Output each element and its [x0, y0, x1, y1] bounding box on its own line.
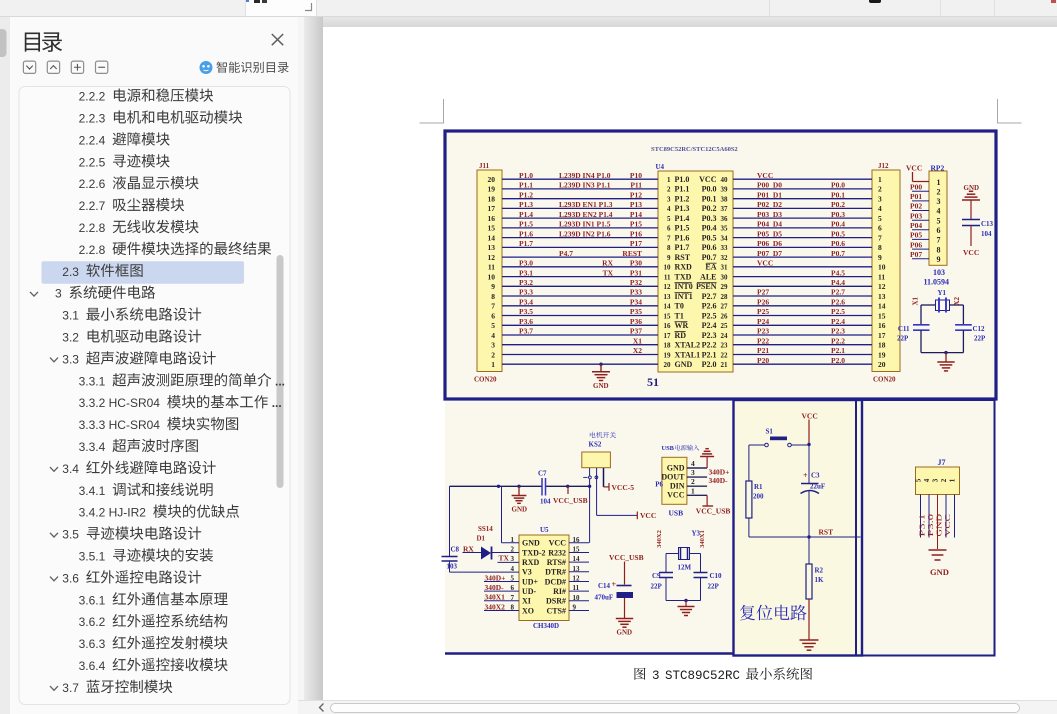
- svg-text:40: 40: [721, 176, 729, 184]
- svg-text:WR: WR: [675, 321, 689, 330]
- svg-text:24: 24: [721, 332, 729, 340]
- svg-text:3: 3: [878, 195, 882, 204]
- svg-text:VCC: VCC: [699, 175, 717, 184]
- svg-text:P20: P20: [757, 356, 769, 365]
- svg-text:3.6.4: 3.6.4: [79, 659, 106, 673]
- svg-text:P06 D6: P06 D6: [757, 239, 782, 248]
- svg-text:29: 29: [721, 283, 729, 291]
- svg-text:DOUT: DOUT: [661, 472, 685, 481]
- svg-text:2: 2: [940, 478, 948, 482]
- svg-text:17: 17: [488, 204, 496, 213]
- svg-text:P07 D7: P07 D7: [757, 249, 782, 258]
- svg-text:10: 10: [488, 272, 496, 281]
- svg-text:28: 28: [721, 293, 729, 301]
- svg-text:P2.4: P2.4: [702, 321, 717, 330]
- svg-text:15: 15: [664, 312, 672, 320]
- svg-text:P2.0: P2.0: [702, 360, 717, 369]
- svg-text:P0.0: P0.0: [702, 185, 717, 194]
- svg-text:P3.5: P3.5: [519, 307, 533, 316]
- svg-text:P01 D1: P01 D1: [757, 190, 782, 199]
- svg-text:REST: REST: [622, 249, 642, 258]
- svg-text:J7: J7: [938, 458, 946, 467]
- svg-text:C8: C8: [451, 545, 460, 553]
- svg-text:3.5.1: 3.5.1: [79, 550, 106, 564]
- svg-text:340D-: 340D-: [709, 476, 729, 485]
- svg-text:22P: 22P: [651, 583, 663, 591]
- svg-text:RD: RD: [675, 331, 687, 340]
- svg-text:P23: P23: [757, 327, 769, 336]
- svg-text:P1.0: P1.0: [519, 171, 533, 180]
- svg-text:5: 5: [915, 478, 923, 482]
- svg-text:RXD: RXD: [675, 263, 693, 272]
- svg-text:INT0: INT0: [675, 282, 693, 291]
- svg-text:P2.1: P2.1: [702, 350, 717, 359]
- svg-text:P15: P15: [630, 220, 642, 229]
- svg-text:10: 10: [664, 264, 672, 272]
- svg-text:340X1: 340X1: [699, 530, 706, 548]
- svg-text:P0.1: P0.1: [702, 195, 717, 204]
- svg-text:3.6.1: 3.6.1: [79, 593, 106, 607]
- svg-text:P02: P02: [910, 202, 922, 211]
- svg-text:C9: C9: [652, 572, 661, 580]
- svg-text:X1: X1: [633, 336, 642, 345]
- svg-text:X1: X1: [912, 296, 920, 305]
- svg-text:14: 14: [664, 303, 672, 311]
- svg-text:P1.2: P1.2: [675, 195, 690, 204]
- svg-text:3: 3: [667, 196, 671, 204]
- svg-text:L293D EN2 P1.4: L293D EN2 P1.4: [559, 210, 613, 219]
- svg-text:+: +: [803, 471, 808, 480]
- svg-text:V3: V3: [522, 568, 532, 577]
- svg-text:P3.3: P3.3: [519, 288, 533, 297]
- svg-text:26: 26: [721, 312, 729, 320]
- svg-text:14: 14: [488, 233, 496, 242]
- svg-text:P13: P13: [630, 200, 642, 209]
- svg-text:P0.6: P0.6: [831, 239, 845, 248]
- svg-text:P30: P30: [630, 259, 642, 268]
- svg-text:3.4.2 HJ-IR2: 3.4.2 HJ-IR2: [79, 506, 147, 520]
- svg-text:P3.7: P3.7: [519, 327, 533, 336]
- svg-text:2.2.7: 2.2.7: [79, 199, 106, 213]
- svg-text:3.3.2 HC-SR04: 3.3.2 HC-SR04: [79, 396, 161, 410]
- svg-text:VCC: VCC: [667, 491, 685, 500]
- svg-text:RTS#: RTS#: [547, 558, 566, 567]
- svg-text:P1.1: P1.1: [519, 181, 533, 190]
- svg-text:6: 6: [878, 224, 882, 233]
- svg-text:5: 5: [878, 214, 882, 223]
- svg-text:104: 104: [981, 230, 992, 238]
- svg-text:S1: S1: [766, 428, 774, 436]
- svg-text:STC89C52RC: STC89C52RC: [665, 669, 740, 683]
- svg-text:KS2: KS2: [589, 441, 602, 449]
- svg-text:RX: RX: [602, 259, 613, 268]
- svg-text:C3: C3: [811, 472, 820, 480]
- svg-text:13: 13: [878, 292, 886, 301]
- svg-text:L293D EN1 P1.3: L293D EN1 P1.3: [559, 200, 613, 209]
- svg-text:P07: P07: [910, 250, 922, 259]
- svg-text:VCC: VCC: [943, 514, 952, 537]
- svg-text:22P: 22P: [708, 583, 720, 591]
- svg-text:CON20: CON20: [873, 376, 896, 384]
- svg-text:19: 19: [878, 350, 886, 359]
- svg-text:P2.5: P2.5: [702, 311, 717, 320]
- svg-text:36: 36: [721, 215, 729, 223]
- svg-text:GND: GND: [675, 360, 693, 369]
- svg-text:X2: X2: [633, 346, 642, 355]
- svg-text:P2.1: P2.1: [831, 346, 845, 355]
- svg-text:340X2: 340X2: [656, 530, 663, 548]
- svg-text:P1.5: P1.5: [675, 224, 690, 233]
- svg-text:3: 3: [491, 341, 495, 350]
- svg-text:8: 8: [937, 245, 941, 254]
- svg-text:VCC: VCC: [757, 171, 773, 180]
- svg-text:51: 51: [647, 375, 659, 389]
- svg-text:CH340D: CH340D: [533, 622, 559, 630]
- svg-text:3.3.3 HC-SR04: 3.3.3 HC-SR04: [79, 418, 161, 432]
- svg-text:8: 8: [491, 292, 495, 301]
- svg-text:R2: R2: [815, 567, 824, 575]
- svg-text:25: 25: [721, 322, 729, 330]
- svg-text:P6: P6: [655, 480, 663, 488]
- svg-text:P17: P17: [630, 239, 642, 248]
- svg-text:3: 3: [937, 197, 941, 206]
- svg-text:VCC_USB: VCC_USB: [696, 507, 731, 516]
- svg-text:3.4.1: 3.4.1: [79, 484, 106, 498]
- svg-text:GND: GND: [512, 506, 528, 514]
- svg-text:P2.3: P2.3: [702, 331, 717, 340]
- svg-text:P10: P10: [630, 171, 642, 180]
- svg-text:3.3: 3.3: [62, 352, 79, 366]
- svg-text:P2.7: P2.7: [702, 292, 717, 301]
- svg-text:9: 9: [491, 282, 495, 291]
- svg-text:C7: C7: [538, 470, 547, 478]
- svg-text:3.6.2: 3.6.2: [79, 615, 106, 629]
- svg-text:RST: RST: [819, 528, 834, 537]
- svg-text:1: 1: [491, 360, 495, 369]
- svg-text:C12: C12: [973, 325, 986, 333]
- svg-text:P3.1: P3.1: [519, 268, 533, 277]
- svg-text:GND: GND: [667, 463, 685, 472]
- svg-text:15: 15: [878, 311, 886, 320]
- svg-text:CTS#: CTS#: [546, 606, 566, 615]
- svg-text:RP2: RP2: [931, 163, 945, 172]
- svg-text:P0.4: P0.4: [831, 220, 845, 229]
- svg-text:23: 23: [721, 342, 729, 350]
- svg-text:P00: P00: [910, 182, 922, 191]
- svg-text:4: 4: [923, 478, 931, 482]
- svg-text:1: 1: [691, 486, 695, 495]
- svg-text:P24: P24: [757, 317, 769, 326]
- svg-text:2.2.3: 2.2.3: [79, 112, 106, 126]
- svg-text:340D-: 340D-: [485, 583, 505, 592]
- svg-text:2.2.5: 2.2.5: [79, 155, 106, 169]
- svg-text:P0.0: P0.0: [831, 181, 845, 190]
- svg-text:Y1: Y1: [938, 289, 947, 297]
- svg-text:P2.7: P2.7: [831, 288, 845, 297]
- svg-text:2: 2: [878, 185, 882, 194]
- svg-text:3: 3: [932, 478, 940, 482]
- svg-text:1: 1: [667, 176, 671, 184]
- svg-text:340X1: 340X1: [485, 593, 506, 602]
- svg-text:2.3: 2.3: [62, 265, 79, 279]
- svg-text:CON20: CON20: [474, 376, 497, 384]
- svg-text:6: 6: [491, 311, 495, 320]
- svg-text:VCC_USB: VCC_USB: [553, 496, 588, 505]
- svg-text:P4.7: P4.7: [559, 249, 573, 258]
- svg-text:3: 3: [652, 669, 660, 683]
- svg-text:UD+: UD+: [522, 577, 539, 586]
- svg-text:2: 2: [937, 187, 941, 196]
- svg-text:J11: J11: [479, 162, 490, 170]
- svg-text:P4.5: P4.5: [831, 268, 845, 277]
- svg-text:VCC: VCC: [802, 412, 818, 421]
- svg-text:3.3.1: 3.3.1: [79, 374, 106, 388]
- svg-text:+: +: [612, 580, 617, 589]
- svg-text:35: 35: [721, 225, 729, 233]
- svg-text:340D+: 340D+: [485, 573, 506, 582]
- svg-text:P27: P27: [757, 288, 769, 297]
- svg-text:2.2.6: 2.2.6: [79, 177, 106, 191]
- svg-text:P05 D5: P05 D5: [757, 229, 782, 238]
- svg-text:P0.1: P0.1: [831, 190, 845, 199]
- svg-text:P03 D3: P03 D3: [757, 210, 782, 219]
- svg-text:P06: P06: [910, 240, 922, 249]
- svg-text:1: 1: [878, 175, 882, 184]
- svg-text:C14: C14: [598, 582, 611, 590]
- svg-text:2.2.4: 2.2.4: [79, 133, 106, 147]
- svg-text:XI: XI: [522, 597, 531, 606]
- svg-text:22: 22: [721, 351, 729, 359]
- svg-text:11.0594: 11.0594: [924, 278, 950, 287]
- svg-text:VCC_USB: VCC_USB: [609, 553, 644, 562]
- svg-text:18: 18: [488, 195, 496, 204]
- svg-text:P0.7: P0.7: [702, 253, 717, 262]
- svg-text:2: 2: [491, 350, 495, 359]
- svg-text:J12: J12: [878, 162, 889, 170]
- svg-text:GND: GND: [617, 629, 633, 637]
- svg-text:39: 39: [721, 186, 729, 194]
- svg-text:P26: P26: [757, 298, 769, 307]
- svg-text:19: 19: [664, 351, 672, 359]
- svg-text:VCC: VCC: [963, 248, 979, 257]
- svg-text:DIN: DIN: [670, 482, 685, 491]
- svg-text:3.3.4: 3.3.4: [79, 440, 106, 454]
- svg-text:P04: P04: [910, 221, 922, 230]
- svg-text:3.4: 3.4: [62, 462, 79, 476]
- svg-text:12M: 12M: [678, 564, 692, 572]
- svg-text:C10: C10: [710, 572, 723, 580]
- svg-text:DTR#: DTR#: [545, 568, 566, 577]
- svg-text:USB: USB: [662, 445, 675, 452]
- svg-text:P0.5: P0.5: [831, 229, 845, 238]
- svg-text:7: 7: [878, 233, 882, 242]
- svg-text:14: 14: [878, 302, 886, 311]
- svg-text:P1.6: P1.6: [519, 229, 533, 238]
- svg-text:XO: XO: [522, 606, 534, 615]
- svg-text:470uF: 470uF: [595, 594, 614, 602]
- svg-text:P2.2: P2.2: [702, 341, 717, 350]
- svg-text:XTAL2: XTAL2: [675, 341, 701, 350]
- svg-text:20: 20: [488, 175, 496, 184]
- svg-text:P05: P05: [910, 231, 922, 240]
- svg-text:340X2: 340X2: [485, 602, 506, 611]
- svg-text:P2.0: P2.0: [831, 356, 845, 365]
- svg-text:P2.4: P2.4: [831, 317, 845, 326]
- svg-text:XTAL1: XTAL1: [675, 350, 701, 359]
- svg-text:17: 17: [878, 331, 886, 340]
- svg-text:11: 11: [664, 273, 671, 281]
- svg-text:P0.4: P0.4: [702, 224, 717, 233]
- svg-text:DSR#: DSR#: [546, 597, 566, 606]
- svg-text:TX: TX: [603, 268, 614, 277]
- svg-text:3: 3: [691, 468, 695, 477]
- svg-text:30: 30: [721, 273, 729, 281]
- svg-text:RI#: RI#: [553, 587, 566, 596]
- svg-text:P01: P01: [910, 192, 922, 201]
- svg-text:8: 8: [878, 243, 882, 252]
- svg-text:20: 20: [878, 360, 886, 369]
- svg-text:16: 16: [664, 322, 672, 330]
- svg-text:P34: P34: [630, 298, 642, 307]
- svg-text:P31: P31: [630, 268, 642, 277]
- svg-text:P1.3: P1.3: [519, 200, 533, 209]
- svg-text:TXD-2: TXD-2: [522, 548, 546, 557]
- svg-text:P25: P25: [757, 307, 769, 316]
- svg-text:L239D IN2 P1.6: L239D IN2 P1.6: [559, 229, 611, 238]
- svg-text:3.7: 3.7: [62, 681, 79, 695]
- svg-text:103: 103: [933, 268, 945, 277]
- svg-text:12: 12: [664, 283, 672, 291]
- svg-text:P0.7: P0.7: [831, 249, 845, 258]
- svg-text:2.2.8: 2.2.8: [79, 221, 106, 235]
- svg-text:37: 37: [721, 205, 729, 213]
- svg-text:6: 6: [667, 225, 671, 233]
- svg-text:7: 7: [667, 234, 671, 242]
- svg-text:PSEN: PSEN: [696, 282, 717, 291]
- svg-text:18: 18: [878, 341, 886, 350]
- svg-text:38: 38: [721, 196, 729, 204]
- svg-text:2.2.2: 2.2.2: [79, 90, 106, 104]
- svg-text:4: 4: [691, 459, 695, 468]
- svg-text:13: 13: [488, 243, 496, 252]
- svg-text:L239D IN3 P1.1: L239D IN3 P1.1: [559, 181, 611, 190]
- svg-text:4: 4: [937, 207, 941, 216]
- svg-text:SS14: SS14: [478, 525, 493, 533]
- svg-text:1: 1: [949, 478, 957, 482]
- svg-text:P1.7: P1.7: [675, 243, 690, 252]
- svg-text:21: 21: [721, 361, 729, 369]
- svg-text:19: 19: [488, 185, 496, 194]
- svg-text:31: 31: [721, 264, 729, 272]
- svg-text:4: 4: [491, 331, 495, 340]
- svg-text:TXD: TXD: [675, 272, 692, 281]
- svg-text:11: 11: [488, 263, 495, 272]
- svg-text:C11: C11: [898, 325, 910, 333]
- svg-text:P1.7: P1.7: [519, 239, 533, 248]
- svg-text:12: 12: [878, 282, 886, 291]
- svg-text:L293D IN1 P1.5: L293D IN1 P1.5: [559, 220, 611, 229]
- svg-text:27: 27: [721, 303, 729, 311]
- svg-text:T1: T1: [675, 311, 684, 320]
- svg-text:X2: X2: [953, 296, 961, 305]
- svg-text:P2.5: P2.5: [831, 307, 845, 316]
- svg-text:4: 4: [667, 205, 671, 213]
- svg-text:VCC: VCC: [757, 259, 773, 268]
- svg-text:VCC: VCC: [549, 539, 567, 548]
- svg-text:UD-: UD-: [522, 587, 537, 596]
- svg-text:P1.2: P1.2: [519, 190, 533, 199]
- svg-text:5: 5: [937, 216, 941, 225]
- svg-text:5: 5: [667, 215, 671, 223]
- svg-text:P16: P16: [630, 229, 642, 238]
- svg-text:P36: P36: [630, 317, 642, 326]
- svg-text:GND: GND: [593, 382, 609, 390]
- svg-text:U4: U4: [656, 163, 665, 171]
- svg-text:R232: R232: [548, 548, 566, 557]
- svg-text:P32: P32: [630, 278, 642, 287]
- svg-text:USB: USB: [669, 509, 684, 518]
- svg-text:12: 12: [488, 253, 496, 262]
- svg-text:P1.0: P1.0: [675, 175, 690, 184]
- svg-text:5: 5: [491, 321, 495, 330]
- svg-text:L239D IN4 P1.0: L239D IN4 P1.0: [559, 171, 611, 180]
- svg-text:GND: GND: [522, 539, 540, 548]
- svg-text:P03: P03: [910, 211, 922, 220]
- svg-text:4: 4: [878, 204, 882, 213]
- svg-text:15: 15: [488, 224, 496, 233]
- svg-text:34: 34: [721, 234, 729, 242]
- svg-text:STC89C52RC/STC12C5A60S2: STC89C52RC/STC12C5A60S2: [651, 146, 738, 153]
- svg-text:3: 3: [55, 287, 62, 301]
- svg-text:32: 32: [721, 254, 729, 262]
- svg-text:P4.4: P4.4: [831, 278, 845, 287]
- svg-text:...: ...: [272, 396, 282, 410]
- svg-text:P2.2: P2.2: [831, 336, 845, 345]
- svg-text:22P: 22P: [974, 335, 986, 343]
- svg-text:P0.2: P0.2: [831, 200, 845, 209]
- svg-text:R1: R1: [754, 483, 763, 491]
- svg-text:VCC-5: VCC-5: [612, 483, 635, 492]
- svg-text:INT1: INT1: [675, 292, 693, 301]
- svg-text:DCD#: DCD#: [545, 577, 566, 586]
- svg-text:16: 16: [488, 214, 496, 223]
- svg-text:P1.5: P1.5: [519, 220, 533, 229]
- svg-text:P00 D0: P00 D0: [757, 181, 782, 190]
- svg-text:P1.1: P1.1: [675, 185, 690, 194]
- svg-text:P1.6: P1.6: [675, 233, 690, 242]
- svg-text:P04 D4: P04 D4: [757, 220, 782, 229]
- svg-text:P21: P21: [757, 346, 769, 355]
- svg-text:RXD: RXD: [522, 558, 540, 567]
- svg-text:17: 17: [664, 332, 672, 340]
- svg-text:P2.6: P2.6: [702, 302, 717, 311]
- svg-text:P0.5: P0.5: [702, 233, 717, 242]
- svg-text:D1: D1: [477, 535, 486, 543]
- svg-text:P37: P37: [630, 327, 642, 336]
- svg-text:3.6: 3.6: [62, 571, 79, 585]
- svg-text:GND: GND: [930, 567, 949, 577]
- svg-text:VCC: VCC: [906, 164, 922, 173]
- svg-text:P1.4: P1.4: [519, 210, 533, 219]
- svg-text:T0: T0: [675, 302, 684, 311]
- svg-text:9: 9: [667, 254, 671, 262]
- svg-text:U5: U5: [540, 526, 549, 534]
- svg-text:EA: EA: [705, 263, 716, 272]
- svg-text:6: 6: [937, 226, 941, 235]
- svg-text:P02 D2: P02 D2: [757, 200, 782, 209]
- svg-text:33: 33: [721, 244, 729, 252]
- svg-text:16: 16: [878, 321, 886, 330]
